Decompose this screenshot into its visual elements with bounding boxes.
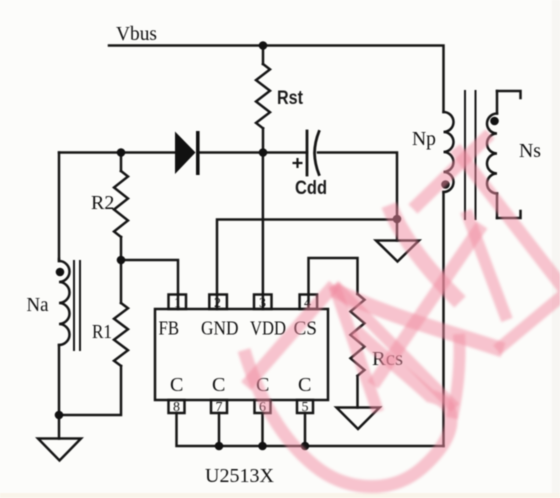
svg-text:VDD: VDD [250, 318, 286, 340]
svg-text:3: 3 [259, 296, 266, 311]
svg-text:R1: R1 [92, 321, 112, 343]
svg-text:2: 2 [214, 296, 221, 311]
svg-text:Np: Np [412, 128, 436, 150]
svg-text:GND: GND [201, 318, 239, 340]
svg-text:Cdd: Cdd [295, 178, 327, 199]
svg-text:R2: R2 [91, 192, 114, 214]
svg-text:5: 5 [302, 400, 309, 415]
svg-text:7: 7 [216, 400, 223, 415]
svg-text:U2513X: U2513X [205, 465, 274, 487]
svg-text:8: 8 [173, 400, 180, 415]
svg-text:Ns: Ns [519, 140, 541, 162]
svg-text:Na: Na [27, 294, 49, 316]
svg-text:1: 1 [174, 296, 181, 311]
svg-text:C: C [212, 374, 225, 396]
svg-text:C: C [170, 374, 183, 396]
svg-text:FB: FB [159, 318, 180, 340]
svg-text:Rst: Rst [277, 88, 304, 109]
svg-text:Vbus: Vbus [116, 23, 157, 45]
svg-text:C: C [298, 374, 311, 396]
